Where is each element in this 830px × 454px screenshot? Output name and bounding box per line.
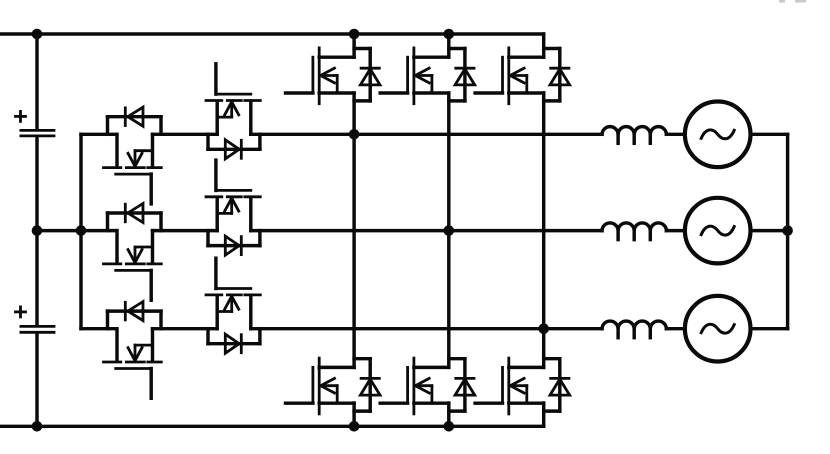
wire source to neutral bus phase B	[751, 229, 788, 232]
node phase A output junction	[349, 129, 360, 140]
mosfet Q6 (bidirectional switch, right element)	[206, 64, 260, 135]
label C1 polarity +	[16, 111, 26, 121]
wire top DC+ rail	[0, 32, 544, 35]
diode D7 (antiparallel, cathode left)	[108, 204, 162, 231]
mosfet Q9 (bidirectional switch, left element)	[104, 329, 162, 399]
diode D3 (freewheeling)	[544, 49, 570, 101]
label C2 polarity +	[16, 307, 26, 317]
node phase B output junction	[444, 225, 455, 236]
node DC midpoint M	[32, 225, 43, 236]
wire inductor to source phase B	[666, 229, 685, 232]
mosfet Q3 (bridge switch)	[475, 48, 544, 104]
mosfet Q5 (bidirectional switch, left element)	[104, 134, 162, 204]
node top rail junction phase B	[444, 29, 455, 40]
mosfet Q8 (bidirectional switch, right element)	[206, 160, 260, 231]
wire midpoint vertical rail	[79, 134, 82, 328]
wire source to neutral bus phase A	[751, 133, 788, 136]
wire phase C line	[251, 327, 602, 330]
mosfet Q10 (bidirectional switch, right element)	[206, 258, 260, 329]
wire inductor to source phase A	[666, 133, 685, 136]
diode D11 (freewheeling)	[449, 359, 475, 411]
node bottom rail junction phase B	[444, 421, 455, 432]
wire inductor to source phase C	[666, 327, 685, 330]
ac source V1	[685, 102, 751, 168]
wire bottom rail drop phase C	[542, 403, 545, 426]
wire left DC bus lower segment	[35, 333, 38, 426]
node DC+ junction	[32, 29, 43, 40]
diode D5 (antiparallel, cathode left)	[108, 107, 162, 134]
mosfet Q11 (bridge switch)	[380, 358, 449, 414]
wire source to neutral bus phase C	[751, 327, 788, 330]
inductor L1	[602, 127, 666, 144]
diode D8 (antiparallel, anode left)	[208, 231, 260, 256]
diode D1 (freewheeling)	[354, 49, 380, 101]
capacitor C2	[21, 326, 54, 332]
diode D12 (freewheeling)	[544, 359, 570, 411]
wire bottom rail drop phase B	[447, 403, 450, 426]
ac source V3	[685, 296, 751, 362]
wire phase C cell interconnect	[153, 327, 218, 330]
ac source V2	[685, 198, 751, 264]
wire phase A cell interconnect	[153, 133, 218, 136]
diode D10 (antiparallel, anode left)	[208, 329, 260, 354]
wire phase B line	[251, 229, 602, 232]
wire top rail drop phase A	[352, 34, 355, 57]
wire phase A leg vertical	[352, 93, 355, 367]
diode D6 (antiparallel, anode left)	[208, 134, 260, 159]
node top rail junction phase A	[349, 29, 360, 40]
wire midpoint to bidirectional switches	[37, 229, 116, 232]
inductor L3	[602, 321, 666, 338]
wire DC bus midpoint to C2	[35, 231, 38, 326]
inductor L2	[602, 223, 666, 240]
diode D2 (freewheeling)	[449, 49, 475, 101]
wire midpoint rail to phase A cell	[81, 133, 116, 136]
node phase C output junction	[538, 323, 549, 334]
wire top rail drop phase B	[447, 34, 450, 57]
mosfet Q4 (bridge switch)	[286, 358, 355, 414]
wire left DC bus upper segment	[35, 34, 38, 129]
wire DC bus between capacitors	[35, 137, 38, 230]
wire midpoint rail to phase C cell	[81, 327, 116, 330]
wire phase B cell interconnect	[153, 229, 218, 232]
mosfet Q7 (bidirectional switch, left element)	[104, 231, 162, 301]
wire top rail drop phase C	[542, 34, 545, 57]
wire bottom rail drop phase A	[352, 403, 355, 426]
wire bottom DC- rail	[0, 425, 544, 428]
node neutral junction	[782, 225, 793, 236]
mosfet Q12 (bridge switch)	[475, 358, 544, 414]
diode D9 (antiparallel, cathode left)	[108, 302, 162, 329]
wire phase C leg vertical	[542, 93, 545, 367]
wire phase B leg vertical	[447, 93, 450, 367]
node midpoint rail junction	[76, 225, 87, 236]
mosfet Q1 (bridge switch)	[286, 48, 355, 104]
mosfet Q2 (bridge switch)	[380, 48, 449, 104]
diode D4 (freewheeling)	[354, 359, 380, 411]
wire phase A line	[251, 133, 602, 136]
node DC- junction	[32, 421, 43, 432]
wire neutral bus	[786, 134, 789, 328]
capacitor C1	[21, 130, 54, 136]
node bottom rail junction phase A	[349, 421, 360, 432]
